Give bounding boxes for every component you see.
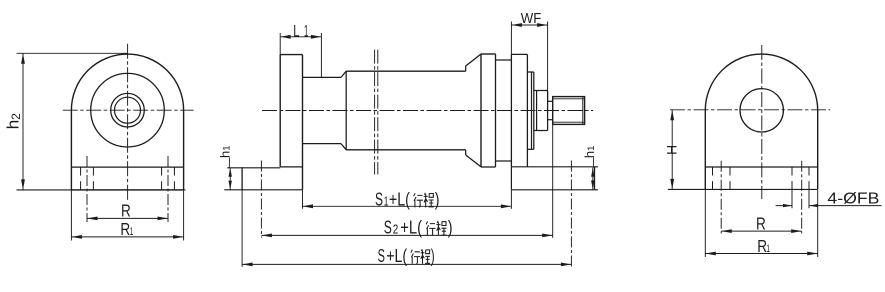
middle view tube step chamfer top <box>341 71 346 77</box>
left view pin hole inner circle <box>115 97 141 123</box>
right view left hole centerline / R extension <box>720 161 722 234</box>
right view horizontal centerline <box>670 109 830 111</box>
svg-text:+L(: +L( <box>389 188 411 209</box>
dimension H label <box>663 145 679 155</box>
right view vertical centerline <box>761 45 763 199</box>
dimension L1 line with arrows <box>280 35 321 39</box>
dimension h2 line with arrows <box>21 53 25 190</box>
left view R1 extension left <box>70 190 72 241</box>
dimension L1 extension left <box>279 33 281 55</box>
dimension S extension left <box>241 190 243 267</box>
left view bolt hole hidden line far-right <box>173 167 175 190</box>
svg-text:H: H <box>663 145 679 155</box>
left view bolt hole hidden line left <box>92 167 94 190</box>
hole diameter leader right segment with arrow <box>809 204 882 207</box>
dimension R1 line with arrows <box>71 235 183 239</box>
left view pin hole outer circle <box>111 93 145 127</box>
svg-text:S: S <box>375 188 383 209</box>
right view hole edge extension below base right <box>808 190 810 208</box>
svg-text:R: R <box>121 201 131 221</box>
left view bolt hole hidden line far-left <box>80 167 82 190</box>
middle view rear cap block <box>280 55 302 190</box>
right view bolt hole hidden line far-right <box>808 167 810 189</box>
dimension S label <box>378 245 435 266</box>
hole diameter leader left segment with arrow <box>776 204 792 207</box>
left view R1 extension right <box>183 190 185 241</box>
middle view weld seam double centerline <box>375 50 378 175</box>
dimension R1 right label <box>757 236 770 256</box>
middle view head block C <box>511 54 527 166</box>
right view R1 extension left <box>704 190 706 257</box>
dimension H line with arrows <box>670 110 674 190</box>
left view right hole centerline / R extension <box>167 156 169 222</box>
dimension R right label <box>756 213 766 233</box>
dimension WF extension left <box>510 22 512 55</box>
middle view main tube top <box>346 70 466 72</box>
dimension S2 line with arrows <box>261 234 552 238</box>
label 4-PhiFB <box>827 190 879 207</box>
left view left hole centerline / R extension <box>86 156 88 222</box>
svg-text:WF: WF <box>521 10 542 27</box>
dimension S line with arrows <box>242 263 571 267</box>
dimension S1 extension right <box>510 190 512 209</box>
right view bolt hole hidden line far-left <box>712 167 714 189</box>
svg-text:R: R <box>756 213 766 233</box>
svg-text:L: L <box>293 22 299 40</box>
svg-text:2: 2 <box>393 222 399 237</box>
svg-text:1: 1 <box>384 193 389 208</box>
dimension L1 extension right <box>320 33 322 77</box>
dimension R1 right line with arrows <box>705 252 817 256</box>
right view bolt hole hidden line left <box>729 167 731 189</box>
dimension S1 line with arrows <box>303 204 512 208</box>
dimension R label <box>121 201 131 221</box>
left view vertical centerline <box>127 44 129 201</box>
left view base bottom / h2 extension line <box>17 189 186 191</box>
dimension WF line with arrows <box>511 23 547 27</box>
middle view left foot outline <box>224 167 302 190</box>
middle view right foot hole centerline / S extension <box>570 161 572 267</box>
right view R1 extension right <box>817 190 819 257</box>
dimension h2 label <box>3 113 23 129</box>
left view clevis body outline (dome + sides + bottom) <box>71 54 183 190</box>
middle view left foot hole centerline / S2 extension <box>260 161 262 238</box>
middle view tube step edge <box>345 71 347 150</box>
dimension S2 label <box>384 217 453 238</box>
svg-text:1: 1 <box>766 243 770 255</box>
dimension L1 label <box>293 22 308 40</box>
middle view rod neck <box>548 101 553 119</box>
svg-text:): ) <box>448 217 453 238</box>
dimension h1 right line with arrows <box>591 168 594 190</box>
dimension h1 left label with leader <box>218 145 233 167</box>
right view right hole centerline / R extension <box>801 161 803 234</box>
right view base top line <box>705 166 817 168</box>
middle view narrow tube top <box>303 76 342 78</box>
dimension S1 label <box>375 188 439 209</box>
right view bolt hole hidden line right <box>791 167 793 189</box>
svg-text:S: S <box>378 245 385 266</box>
middle view tube step chamfer bottom <box>341 144 346 150</box>
dimension h1 right label with leader <box>582 146 597 168</box>
right view clevis body outline (dome + sides + bottom) <box>705 54 817 189</box>
middle view main tube bottom <box>346 149 466 151</box>
left view horizontal centerline <box>63 109 194 111</box>
dimension R1 label <box>120 219 133 239</box>
svg-text:+L(: +L( <box>386 245 408 266</box>
svg-text:S: S <box>384 217 392 238</box>
middle view narrow tube bottom <box>303 143 342 145</box>
left view bore circle (medium) <box>91 73 165 147</box>
middle view right foot outline <box>511 167 598 190</box>
left view h2 top extension line <box>17 52 128 54</box>
dimension WF extension right <box>547 22 549 102</box>
middle view horizontal centerline <box>262 110 593 112</box>
middle view rod thread block <box>553 97 585 125</box>
svg-text:+L(: +L( <box>400 217 422 238</box>
left view base top line <box>71 166 183 168</box>
dimension S2 extension right <box>552 124 554 237</box>
svg-text:): ) <box>435 188 440 209</box>
svg-text:1: 1 <box>304 22 308 40</box>
right view pin hole circle <box>740 89 783 132</box>
middle view head flange block A <box>481 54 496 167</box>
right view base bottom / H extension line <box>668 188 818 190</box>
dimension R line with arrows <box>87 217 168 221</box>
middle view gland ring E <box>534 91 548 131</box>
left view bolt hole hidden line right <box>161 167 163 190</box>
dimension WF label <box>521 10 542 27</box>
middle view head cone top <box>466 54 481 71</box>
dimension R right line with arrows <box>721 229 802 233</box>
svg-text:4-ØFB: 4-ØFB <box>827 190 879 207</box>
right view hole edge extension below base left <box>791 190 793 208</box>
middle view head cone bottom <box>466 150 481 167</box>
dimension S1 extension left <box>302 190 304 209</box>
svg-text:): ) <box>431 245 435 266</box>
middle view head ring B <box>496 60 512 161</box>
dimension h1 left line with arrows <box>229 168 232 190</box>
middle view gland block D <box>527 72 533 149</box>
svg-text:1: 1 <box>130 226 134 238</box>
